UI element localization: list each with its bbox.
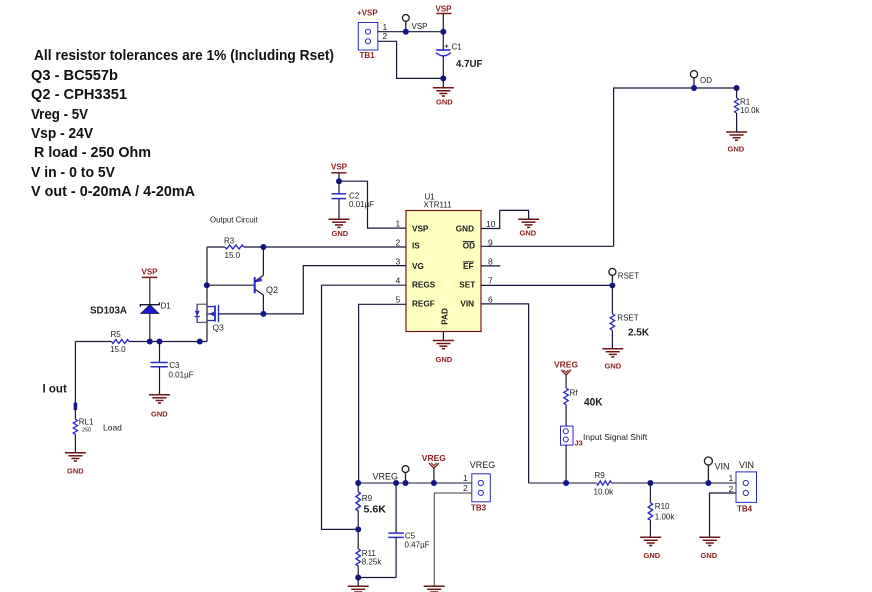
power symbol VSP (top) xyxy=(436,5,453,32)
svg-text:GND: GND xyxy=(436,97,453,106)
junction SET node xyxy=(609,282,615,288)
svg-text:Rf: Rf xyxy=(570,389,579,398)
svg-text:R3: R3 xyxy=(224,236,235,245)
svg-text:2: 2 xyxy=(383,31,388,41)
svg-text:REGF: REGF xyxy=(412,300,435,309)
svg-text:R load - 250 Ohm: R load - 250 Ohm xyxy=(34,144,151,161)
ground below RL1 xyxy=(65,453,86,476)
svg-text:TB1: TB1 xyxy=(360,51,376,60)
junction OD node xyxy=(691,85,697,91)
ground below C2 xyxy=(329,219,350,238)
ground below RSET xyxy=(602,349,623,371)
svg-text:TB4: TB4 xyxy=(737,504,753,513)
svg-text:VIN: VIN xyxy=(715,461,730,471)
junction Q2 base branch xyxy=(204,282,210,288)
svg-text:10.0k: 10.0k xyxy=(594,488,615,497)
svg-text:VREG: VREG xyxy=(422,453,446,463)
wire J3 to input bus xyxy=(565,445,567,483)
wire R3 left rail down xyxy=(206,247,208,342)
wire pin2 IS to R3 xyxy=(263,246,406,248)
junction R10 top xyxy=(647,480,653,486)
junction C5 top xyxy=(393,480,399,486)
svg-text:SET: SET xyxy=(459,280,475,289)
svg-text:1.00k: 1.00k xyxy=(655,512,676,521)
svg-text:C2: C2 xyxy=(349,191,360,200)
svg-text:VG: VG xyxy=(412,262,424,271)
junction VREG terminal xyxy=(403,480,409,486)
junction Q2 collector / VG xyxy=(260,311,266,317)
svg-text:VSP: VSP xyxy=(436,5,453,14)
svg-text:VIN: VIN xyxy=(739,460,754,470)
power symbol VREG (Rf) xyxy=(554,360,578,389)
svg-text:GND: GND xyxy=(644,551,661,560)
resistor RL1 xyxy=(73,418,122,453)
svg-text:GND: GND xyxy=(436,355,453,364)
svg-text:15.0: 15.0 xyxy=(225,251,241,260)
wire base of Q2 xyxy=(207,284,254,286)
ground below PAD xyxy=(433,341,454,364)
svg-text:C1: C1 xyxy=(452,43,463,52)
svg-text:RSET: RSET xyxy=(618,272,639,281)
svg-text:OD: OD xyxy=(700,76,712,85)
svg-text:R9: R9 xyxy=(595,471,606,480)
svg-text:GND: GND xyxy=(701,551,718,560)
svg-text:R10: R10 xyxy=(655,502,670,511)
svg-text:R5: R5 xyxy=(111,330,122,339)
diode D1 schottky xyxy=(140,302,171,342)
junction R11 bottom xyxy=(355,575,361,581)
wire pin9 stub xyxy=(481,245,614,247)
svg-text:R9: R9 xyxy=(362,494,373,503)
ground below C3 xyxy=(149,395,170,419)
svg-text:4: 4 xyxy=(396,276,401,286)
wire VREG bus xyxy=(358,482,472,484)
resistor R3 xyxy=(207,236,263,259)
wire pin4 REGS down xyxy=(322,285,407,529)
terminal VIN (open circle) xyxy=(704,457,712,483)
svg-text:All resistor tolerances are 1%: All resistor tolerances are 1% (Includin… xyxy=(34,47,334,64)
svg-text:0.47µF: 0.47µF xyxy=(405,540,430,549)
svg-text:VSP: VSP xyxy=(142,268,159,277)
svg-text:7: 7 xyxy=(488,276,493,286)
junction VSP/C2 xyxy=(336,178,342,184)
wire C5 bottom to R11 bottom xyxy=(358,577,396,579)
ground below R1 xyxy=(726,132,747,153)
svg-text:TB3: TB3 xyxy=(471,504,487,513)
svg-text:0.01µF: 0.01µF xyxy=(169,370,194,379)
svg-text:I out: I out xyxy=(43,384,67,396)
power symbol VSP (D1) xyxy=(142,268,159,304)
resistor R9 input xyxy=(594,471,615,497)
svg-text:GND: GND xyxy=(520,228,537,237)
junction VSP node xyxy=(403,29,409,35)
svg-text:GND: GND xyxy=(67,467,84,476)
svg-text:1: 1 xyxy=(463,473,468,483)
svg-text:REGS: REGS xyxy=(412,280,436,289)
ground below TB4 pin2 xyxy=(699,537,720,560)
svg-text:10: 10 xyxy=(486,219,496,229)
ground below C1 xyxy=(433,78,454,106)
transistor Q2 (PNP) xyxy=(255,247,278,314)
power symbol VREG (TB3) xyxy=(422,453,446,483)
svg-text:GND: GND xyxy=(605,361,622,370)
capacitor C3 xyxy=(151,342,194,395)
svg-text:0.01µF: 0.01µF xyxy=(349,200,374,209)
terminal VREG (open circle) xyxy=(402,466,409,483)
svg-text:250: 250 xyxy=(82,428,91,434)
svg-text:VIN: VIN xyxy=(460,300,474,309)
svg-text:6: 6 xyxy=(488,295,493,305)
wire PAD to ground xyxy=(442,332,444,341)
wire pin8 EF stub xyxy=(481,265,500,267)
svg-text:VSP: VSP xyxy=(331,162,348,171)
junction R9/R11 xyxy=(355,526,361,532)
svg-text:4.7UF: 4.7UF xyxy=(456,58,483,70)
svg-text:10.0k: 10.0k xyxy=(740,106,761,115)
wire pin6 VIN down to input bus xyxy=(481,304,529,483)
wire TB1 pin2 to C1 bottom xyxy=(378,41,444,78)
svg-text:GND: GND xyxy=(332,229,349,238)
junction bus Q3 xyxy=(197,339,203,345)
op-amp U1 body xyxy=(406,193,481,332)
capacitor C1 polarized xyxy=(436,32,462,79)
junction R3 right / Q2 emitter xyxy=(260,244,266,250)
svg-text:PAD: PAD xyxy=(441,308,450,325)
svg-text:1: 1 xyxy=(729,473,734,483)
svg-text:2: 2 xyxy=(463,483,468,493)
svg-text:IS: IS xyxy=(412,242,420,251)
ground at pin10 xyxy=(518,219,539,237)
junction REGF/R9 xyxy=(355,480,361,486)
terminal RSET (open circle) xyxy=(609,268,616,285)
svg-text:8: 8 xyxy=(488,257,493,267)
svg-text:VSP: VSP xyxy=(412,225,429,234)
junction C1 bottom xyxy=(440,75,446,81)
svg-text:EF: EF xyxy=(463,262,473,271)
power symbol VSP (C2) xyxy=(331,162,348,181)
resistor R9 xyxy=(356,483,386,529)
svg-text:VREG: VREG xyxy=(373,471,399,481)
ground below R10 xyxy=(640,537,661,560)
svg-text:C5: C5 xyxy=(405,531,416,540)
pin 8 EF label (active low) xyxy=(463,262,474,271)
pin 9 OD label (active low) xyxy=(463,242,475,251)
svg-text:Input Signal Shift: Input Signal Shift xyxy=(583,432,648,442)
svg-text:J3: J3 xyxy=(575,438,583,447)
junction bus C3 xyxy=(157,339,163,345)
wire input bus xyxy=(529,482,597,484)
svg-text:VREG: VREG xyxy=(554,360,578,370)
resistor R5 xyxy=(110,330,129,354)
svg-text:XTR111: XTR111 xyxy=(424,201,453,210)
svg-text:V in - 0 to 5V: V in - 0 to 5V xyxy=(31,164,115,181)
svg-text:D1: D1 xyxy=(161,302,172,311)
annotation notes text block xyxy=(31,47,334,200)
svg-text:Q3 - BC557b: Q3 - BC557b xyxy=(31,67,118,84)
svg-text:GND: GND xyxy=(151,409,168,418)
svg-text:1: 1 xyxy=(396,219,401,229)
connector TB3 xyxy=(472,474,491,502)
wire output bus xyxy=(75,341,111,343)
svg-text:+VSP: +VSP xyxy=(357,9,378,18)
wire pin7 SET to RSET node xyxy=(481,284,612,286)
svg-text:8.25k: 8.25k xyxy=(362,558,383,567)
svg-text:15.0: 15.0 xyxy=(110,345,126,354)
wire pin10 to ground xyxy=(481,210,529,228)
svg-text:RSET: RSET xyxy=(617,313,638,322)
wire TB3 pin2 to ground xyxy=(434,493,472,586)
svg-text:Vreg - 5V: Vreg - 5V xyxy=(31,106,88,123)
svg-text:RL1: RL1 xyxy=(79,418,94,427)
wire pin9 OD up and across xyxy=(614,88,737,246)
resistor R11 xyxy=(356,529,382,577)
pin marker on I out wire xyxy=(74,402,78,410)
connector TB4 xyxy=(736,472,757,503)
svg-text:SD103A: SD103A xyxy=(90,305,127,317)
svg-text:40K: 40K xyxy=(584,397,603,409)
resistor RSET xyxy=(610,285,649,348)
transistor Q3 (PMOS) xyxy=(195,304,225,332)
svg-text:+: + xyxy=(445,43,449,50)
svg-text:5.6K: 5.6K xyxy=(364,504,387,516)
svg-text:Q2: Q2 xyxy=(266,285,278,295)
junction J3/bus xyxy=(563,480,569,486)
resistor R1 xyxy=(734,88,760,132)
svg-text:OD: OD xyxy=(463,242,475,251)
resistor R10 xyxy=(648,483,675,537)
svg-text:VSP: VSP xyxy=(412,22,428,31)
wire TB1 pin1 to node VSP xyxy=(378,31,444,33)
jumper J3 xyxy=(561,426,574,445)
wire pin3 VG to gate rail xyxy=(219,266,407,314)
svg-text:GND: GND xyxy=(456,225,474,234)
wire VSP node to pin1 xyxy=(339,181,406,228)
junction R1 top xyxy=(734,85,740,91)
ground below R11 xyxy=(348,578,369,592)
connector TB1 xyxy=(358,23,378,51)
svg-text:Q2 - CPH3351: Q2 - CPH3351 xyxy=(31,86,127,103)
svg-text:VREG: VREG xyxy=(470,460,496,470)
svg-text:Vsp - 24V: Vsp - 24V xyxy=(31,125,93,142)
terminal VSP (open circle) xyxy=(402,15,409,32)
wire pin5 REGF down xyxy=(359,304,406,483)
junction VIN terminal xyxy=(705,480,711,486)
terminal OD (open circle) xyxy=(690,71,697,88)
svg-text:2.5K: 2.5K xyxy=(628,326,649,338)
svg-text:GND: GND xyxy=(728,144,745,153)
wire I out column xyxy=(74,342,76,420)
svg-text:Q3: Q3 xyxy=(213,323,225,333)
junction C1 top xyxy=(440,29,446,35)
junction VREG power xyxy=(431,480,437,486)
capacitor C5 xyxy=(388,483,429,578)
capacitor C2 xyxy=(332,181,375,218)
svg-text:Output Circuit: Output Circuit xyxy=(210,216,258,225)
svg-text:5: 5 xyxy=(396,295,401,305)
resistor Rf xyxy=(564,388,603,426)
junction bus D1 xyxy=(147,339,153,345)
wire TB4 pin2 to ground xyxy=(710,493,737,537)
svg-text:V out - 0-20mA / 4-20mA: V out - 0-20mA / 4-20mA xyxy=(31,183,195,200)
svg-text:2: 2 xyxy=(396,238,401,248)
svg-text:Load: Load xyxy=(103,422,122,432)
ground below TB3 pin2 xyxy=(424,586,445,592)
svg-text:C3: C3 xyxy=(169,361,180,370)
